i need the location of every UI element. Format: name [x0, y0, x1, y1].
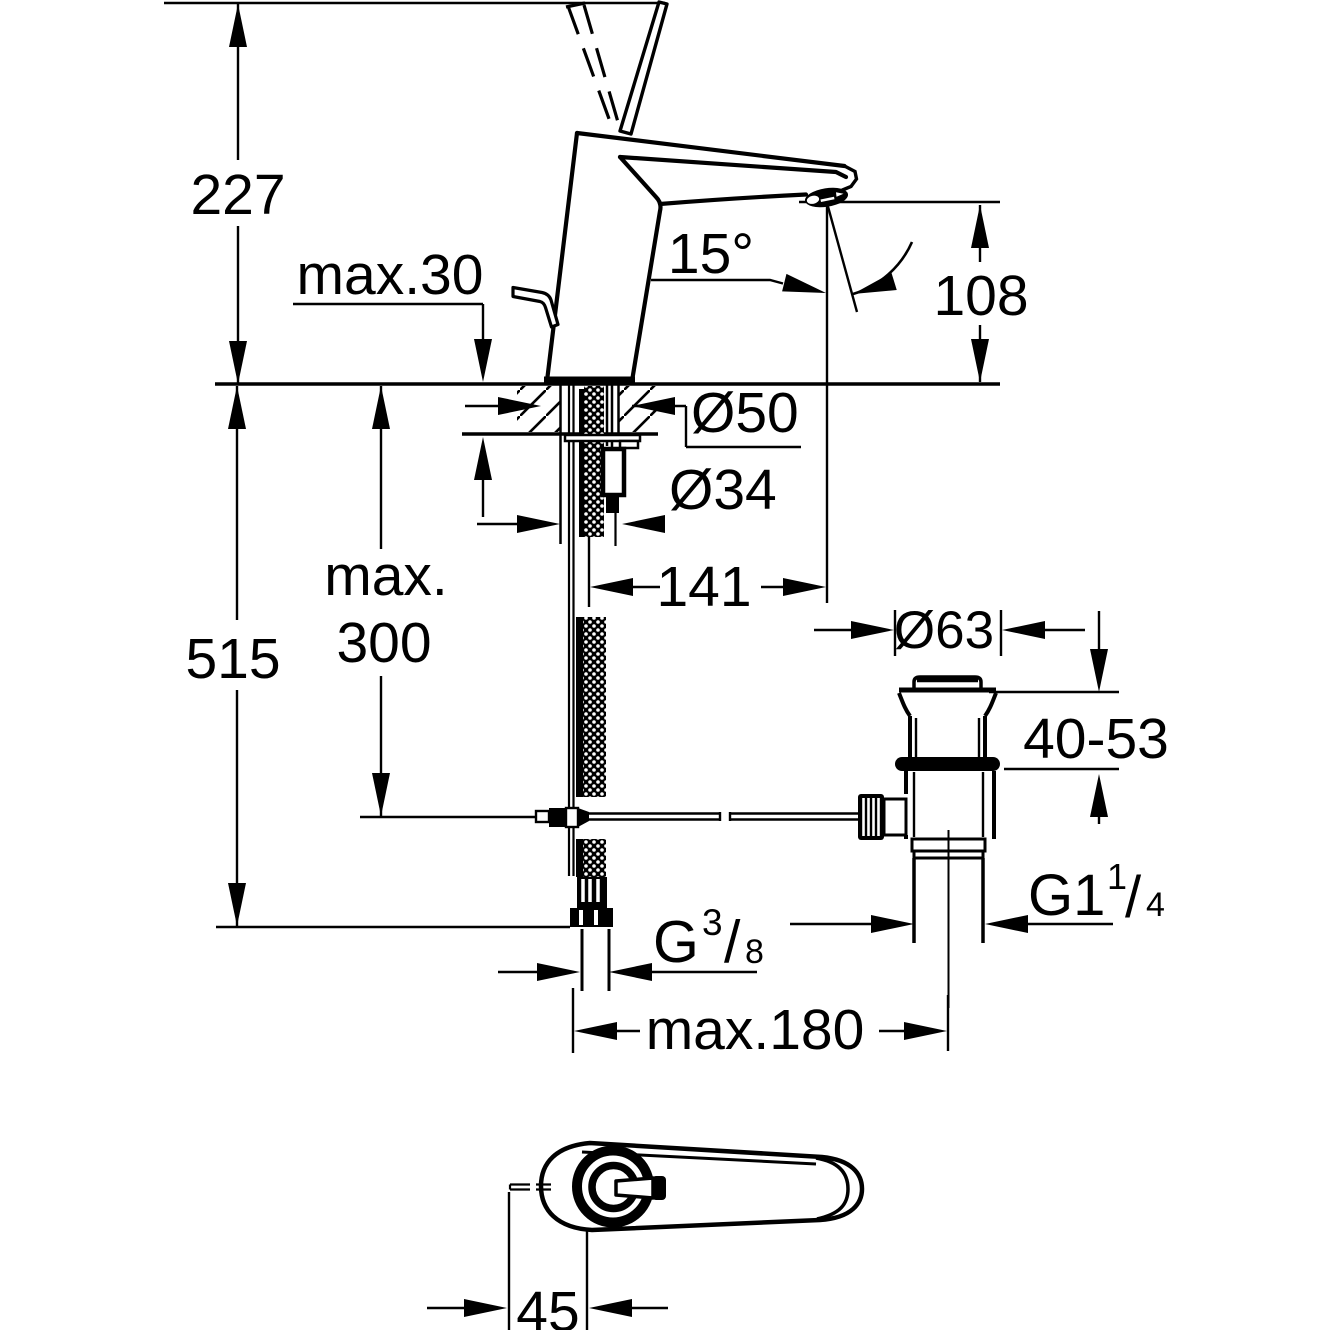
svg-text:8: 8 — [745, 933, 764, 971]
svg-text:1: 1 — [1107, 856, 1127, 897]
svg-text:515: 515 — [185, 627, 280, 691]
svg-text:3: 3 — [702, 902, 723, 943]
svg-text:Ø63: Ø63 — [894, 601, 994, 660]
svg-text:141: 141 — [656, 555, 751, 619]
svg-text:300: 300 — [336, 611, 431, 675]
svg-text:max.30: max.30 — [297, 243, 484, 307]
svg-text:Ø50: Ø50 — [691, 381, 799, 445]
svg-text:max.180: max.180 — [646, 998, 865, 1062]
svg-text:45: 45 — [516, 1280, 579, 1330]
svg-text:40-53: 40-53 — [1023, 707, 1169, 771]
svg-text:15°: 15° — [668, 222, 754, 286]
svg-text:max.: max. — [324, 544, 448, 608]
svg-text:Ø34: Ø34 — [669, 458, 777, 522]
svg-text:G1: G1 — [1028, 863, 1105, 928]
svg-text:227: 227 — [190, 163, 285, 227]
svg-text:/: / — [1125, 865, 1142, 930]
svg-text:108: 108 — [933, 264, 1028, 328]
svg-text:G: G — [653, 909, 699, 975]
svg-text:/: / — [724, 909, 741, 975]
svg-text:4: 4 — [1146, 886, 1165, 924]
